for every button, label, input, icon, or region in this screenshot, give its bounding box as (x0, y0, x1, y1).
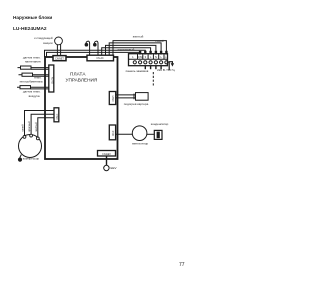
svg-text:N: N (155, 55, 157, 59)
svg-text:CN-H: CN-H (113, 95, 115, 101)
svg-text:CN-AC: CN-AC (96, 57, 104, 60)
svg-text:компрессор: компрессор (23, 157, 40, 161)
svg-text:воздуха: воздуха (29, 94, 40, 98)
svg-text:CN-EEV: CN-EEV (102, 154, 111, 156)
svg-text:панель зажимов: панель зажимов (126, 69, 149, 73)
svg-text:CN-F: CN-F (113, 130, 115, 136)
svg-text:подогрев картера: подогрев картера (124, 102, 149, 106)
svg-text:датчик темп.: датчик темп. (23, 90, 41, 94)
svg-text:CN-C: CN-C (57, 113, 59, 119)
svg-text:CN-TH: CN-TH (52, 77, 54, 84)
svg-text:CN-NET: CN-NET (55, 58, 64, 60)
svg-text:желтый: желтый (133, 34, 144, 38)
svg-text:EEV: EEV (111, 166, 117, 170)
svg-text:конденсатор: конденсатор (151, 122, 169, 126)
svg-text:теплообменника: теплообменника (19, 80, 43, 84)
svg-text:красный: красный (27, 121, 31, 132)
svg-text:220 В / 50 Гц: 220 В / 50 Гц (157, 68, 175, 72)
svg-text:УПРАВЛЕНИЯ: УПРАВЛЕНИЯ (66, 78, 98, 83)
svg-text:⏚: ⏚ (164, 55, 167, 59)
svg-text:77: 77 (179, 262, 185, 268)
svg-text:синий: синий (21, 124, 25, 132)
svg-text:желтый: желтый (34, 122, 38, 132)
svg-text:секции: секции (43, 41, 53, 45)
svg-text:2(N): 2(N) (137, 55, 142, 59)
svg-text:ПЛАТА: ПЛАТА (70, 72, 86, 77)
svg-text:вентилятор: вентилятор (132, 142, 148, 146)
svg-text:синий: синий (155, 39, 164, 43)
svg-text:Наружные блоки: Наружные блоки (13, 14, 52, 20)
svg-text:к следующей: к следующей (34, 36, 53, 40)
svg-text:нагнетания: нагнетания (25, 59, 41, 63)
svg-text:LU-HE24UMA2: LU-HE24UMA2 (13, 26, 47, 32)
svg-text:коричневый: коричневый (118, 47, 135, 51)
